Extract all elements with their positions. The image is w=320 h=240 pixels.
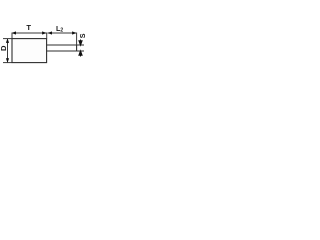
extension tick D top xyxy=(3,38,12,40)
extension line right of L2 xyxy=(76,33,78,46)
dim line T xyxy=(12,32,47,34)
arrow L2 left xyxy=(48,31,53,34)
svg-text:S: S xyxy=(78,33,87,38)
head rectangle (wheel body D x T) xyxy=(12,39,47,63)
arrow S up (below shank) xyxy=(79,51,82,57)
arrow D top xyxy=(6,38,9,43)
svg-text:T: T xyxy=(26,23,31,32)
background xyxy=(0,0,88,88)
arrow T left xyxy=(12,31,17,34)
svg-text:D: D xyxy=(0,45,8,51)
arrow L2 right xyxy=(72,31,77,34)
extension line between T and L2 xyxy=(46,33,48,39)
extension line left of T xyxy=(11,33,13,39)
arrow T right xyxy=(42,31,47,34)
arrow S down (above shank) xyxy=(79,40,82,46)
dim line L2 xyxy=(48,32,77,34)
arrow D bottom xyxy=(6,58,9,63)
dim line D xyxy=(7,39,9,63)
extension tick D bottom xyxy=(3,62,12,64)
shank (spindle) xyxy=(47,45,84,51)
